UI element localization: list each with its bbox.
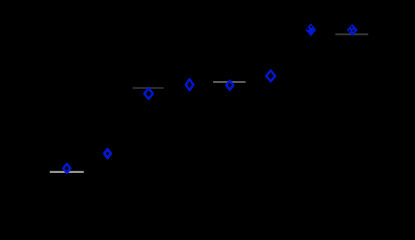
wire: gray segment L2	[133, 87, 164, 89]
node D8 hole b	[349, 30, 351, 32]
node D8 hole a	[351, 27, 353, 29]
wire: gray segment L1	[50, 171, 84, 173]
node D3: open diamond marker	[144, 88, 153, 99]
node D6: open diamond marker	[266, 71, 275, 82]
node D5: open diamond marker	[226, 81, 233, 90]
node D7 hole a	[307, 28, 309, 30]
wire: gray segment L4	[335, 33, 368, 35]
node D8: filled diamond marker	[347, 25, 357, 36]
node D4: open diamond marker	[186, 79, 194, 90]
node D2: open diamond marker	[104, 149, 111, 158]
node D8 hole c	[352, 30, 354, 32]
node D7: filled diamond marker	[306, 24, 316, 36]
node D7 hole b	[310, 26, 312, 28]
node D1: open diamond marker	[63, 164, 70, 173]
wire: gray segment L3	[213, 81, 246, 83]
